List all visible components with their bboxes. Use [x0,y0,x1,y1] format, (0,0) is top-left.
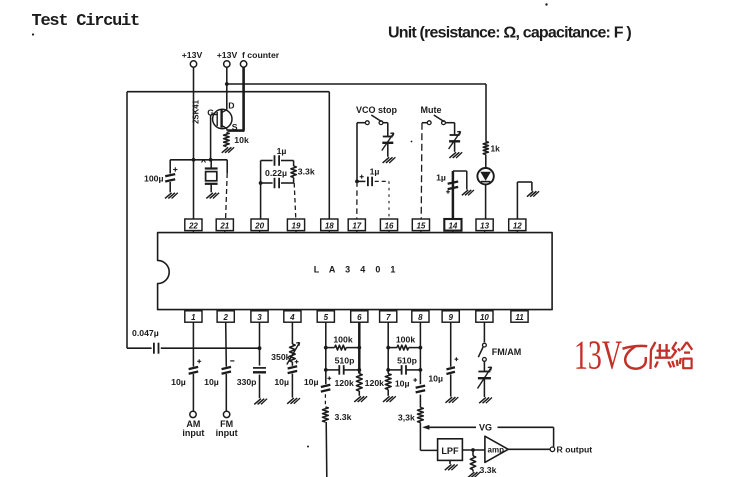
svg-text:10µ: 10µ [395,379,410,389]
ground pin14 bracket [462,190,474,195]
op-amp U1 [485,436,508,462]
svg-text:100µ: 100µ [144,174,164,184]
svg-text:2SK41: 2SK41 [192,99,201,124]
svg-text:f counter: f counter [242,50,280,60]
wire pin20 rail [259,161,273,220]
wire pin19 rail [281,161,294,184]
unit note text [388,24,631,41]
svg-text:S: S [232,122,238,132]
svg-text:1: 1 [191,313,196,322]
svg-text:+13V: +13V [182,50,203,60]
svg-text:15: 15 [416,221,425,230]
svg-text:Unit (resistance: Ω, capacitan: Unit (resistance: Ω, capacitance: F ) [388,24,631,41]
wire pin8 col [419,322,423,384]
wire pin5 dashed [324,394,326,407]
svg-text:5: 5 [324,313,329,322]
capacitor 510p (right) [388,356,420,375]
svg-text:120k: 120k [334,378,353,388]
svg-text:13: 13 [480,221,489,230]
pin 16 [380,219,397,233]
terminal OR output [550,445,592,455]
wire Mute left dashed to pin 15 [420,123,423,219]
svg-text:D: D [228,101,234,111]
resistor 1k [483,142,500,155]
pin 14 [444,219,461,233]
transistor 2SK41 [207,101,238,133]
red kanji kyou [651,342,672,369]
red kanji kyuu [672,342,693,368]
pin 7 [380,310,397,323]
svg-text:VG: VG [479,422,492,432]
ground pin12 [527,191,539,196]
terminal +13V (right) [217,50,238,67]
variable capacitor (Mute) [449,132,461,150]
pin 21 [216,219,233,233]
wire +13V right down to FET drain [226,67,228,109]
capacitor 0.22µ [265,168,287,188]
svg-text:input: input [216,428,238,438]
svg-text:510p: 510p [397,356,417,366]
red text 13V [574,331,622,377]
ground under 100µ [165,193,178,199]
capacitor 1µ (VCO) [357,167,379,187]
resistor 3.3k (osc) [291,166,315,178]
label VG [479,422,492,432]
svg-text:2: 2 [222,313,228,322]
wire VG loop [425,427,554,447]
svg-text:120k: 120k [365,378,384,388]
svg-text:L A 3 4 0 1: L A 3 4 0 1 [314,265,400,275]
svg-text:7: 7 [386,313,391,322]
switch Mute [422,115,455,125]
arrowhead VG [422,425,429,430]
wire node row [170,158,227,162]
resistor 100k (left) [326,335,360,350]
svg-text:0.047µ: 0.047µ [132,328,159,338]
svg-text:amp: amp [488,445,505,454]
wire pin8 mid [419,395,421,408]
svg-text:Test Circuit: Test Circuit [32,12,139,31]
wire pin10 col [483,322,485,342]
wire 1µ to pin16 dashed [375,181,389,219]
pin 9 [442,310,459,323]
wire pin2 col [225,322,228,411]
svg-text:10: 10 [480,313,489,322]
crystal resonator [205,160,218,193]
svg-text:10µ: 10µ [304,377,319,387]
wire pin7 col [386,322,390,373]
wire pin9 col [450,322,452,396]
wire pin5 col [324,322,328,384]
label VCO stop [356,105,398,115]
capacitor 100µ [144,160,178,193]
wire pin6 col bold [357,322,361,373]
resistor 100k (right) [388,335,420,350]
capacitor 1µ (pin 14) [436,171,458,219]
terminal FM input [216,411,238,438]
capacitor 330p [237,368,266,387]
title text [32,12,139,31]
wire dashed to pin 19 [294,183,296,219]
LPF box [438,439,463,461]
wire rail down to 1k [485,84,487,142]
capacitor 1µ (osc) [275,146,287,166]
svg-text:11: 11 [515,313,524,322]
pin 22 [185,219,202,233]
svg-text:12: 12 [513,221,522,230]
svg-text:9: 9 [448,313,453,322]
switch FM/AM [478,343,521,361]
terminal +13V (left) [182,50,203,67]
svg-text:19: 19 [292,221,301,230]
pin 13 [476,219,493,233]
pin 15 [412,219,429,233]
wire VCO sw to varcap [387,123,389,137]
artifact dot [32,3,548,447]
pin 11 [511,310,528,323]
svg-text:1µ: 1µ [436,173,446,183]
svg-text:0.22µ: 0.22µ [265,168,287,178]
svg-text:FM/AM: FM/AM [492,347,522,357]
svg-text:14: 14 [448,221,457,230]
wire pin8 to LPF [420,423,437,451]
capacitor 10µ (pin2) [204,361,234,387]
wire LPF to amp [462,448,485,452]
pin 10 [476,310,493,323]
svg-text:17: 17 [352,221,361,230]
svg-text:100k: 100k [333,335,352,345]
wire 120k7 to gnd [387,390,389,396]
ground pin10 [479,397,492,403]
ground pin7 [383,396,396,402]
ground under LPF [445,464,458,470]
svg-text:1k: 1k [491,144,501,154]
variable capacitor (FM/AM) [478,367,492,389]
capacitor 510p (left) [326,356,360,375]
pin 5 [317,310,334,323]
svg-text:13V: 13V [574,331,622,377]
wire sw to varcap [483,361,485,371]
LED indicator [477,155,493,220]
ground pin9 [445,397,458,403]
svg-text:18: 18 [325,221,334,230]
resistor 10k [224,133,249,147]
resistor 120k (pin7) [365,374,391,390]
svg-text:330p: 330p [237,377,257,387]
label Mute [421,105,442,115]
ground 3.3k amp [468,472,480,477]
wire top rail +13V to pin13 column [225,82,486,86]
terminal f counter [240,50,279,67]
wire LPF gnd [449,460,451,464]
capacitor 10µ (pin1) [171,359,201,387]
pin 17 [348,219,365,233]
svg-text:6: 6 [357,313,362,322]
svg-text:input: input [182,428,204,438]
ground under Mute varcap [449,152,462,158]
svg-text:350k: 350k [271,352,290,362]
node A mark [202,160,206,163]
capacitor 10µ (pin9) [428,357,458,383]
svg-text:Mute: Mute [421,105,442,115]
switch VCO stop [357,115,388,125]
svg-text:+13V: +13V [217,50,238,60]
ground pin4 [287,398,300,404]
svg-text:3.3k: 3.3k [335,412,352,422]
svg-text:10k: 10k [234,135,249,145]
svg-text:VCO stop: VCO stop [356,105,398,115]
capacitor 10µ (pin8) [395,378,425,392]
wire corner down to pin 21 [226,160,228,219]
capacitor 10µ (pin5) [304,376,331,391]
wire Mute sw to varcap [454,123,456,135]
pin 18 [321,219,338,233]
svg-text:10µ: 10µ [428,374,443,384]
wire varcap to gnd [483,378,485,397]
svg-text:21: 21 [219,221,229,230]
svg-text:3.3k: 3.3k [298,167,315,177]
pin 8 [412,310,429,323]
wire gate down [210,115,212,160]
svg-text:8: 8 [418,313,423,322]
wire 120k to gnd [358,391,360,396]
svg-text:3.3k: 3.3k [480,465,497,475]
svg-text:LPF: LPF [441,446,459,456]
wire pin4 col [291,322,293,397]
pin 6 [351,310,368,323]
svg-text:R output: R output [557,445,593,455]
terminal AM input [182,411,204,438]
svg-text:22: 22 [188,221,198,230]
pin 19 [287,219,304,233]
svg-text:1µ: 1µ [277,146,287,156]
wire 0.047 to pin3 junction [161,346,262,350]
bracket to ground pin14 [453,171,467,190]
wire +13V left down to pin 22 [193,67,195,219]
wire VCO left dashed to pin 17 [356,181,358,219]
resistor 3.3k (amp) [470,450,496,475]
label 2SK41 [192,99,201,124]
resistor 3.3k (pin8) [398,408,423,423]
ground under crystal [206,193,219,199]
red kanji de [623,346,648,369]
svg-text:20: 20 [254,221,264,230]
svg-text:10µ: 10µ [171,377,186,387]
wire pin12 to ground [517,182,532,219]
svg-text:16: 16 [385,221,394,230]
variable capacitor (VCO stop) [382,133,394,151]
pin 20 [251,219,268,233]
svg-text:4: 4 [289,313,295,322]
ground pin3 [254,399,267,405]
IC LA3401 body [158,233,552,310]
pin 1 [185,310,202,323]
svg-text:1µ: 1µ [370,167,380,177]
svg-text:100k: 100k [396,335,415,345]
wire VCO left down [355,123,359,184]
ground under VCO varcap [383,157,396,163]
capacitor 0.047µ [132,328,159,354]
pin 4 [284,310,301,323]
svg-text:10µ: 10µ [204,377,219,387]
wire Mute varcap to gnd [454,141,456,152]
pin 3 [251,310,268,323]
capacitor 10µ (pin4) [274,360,298,387]
resistor 120k (pin6) [334,374,362,391]
ground under 10k [222,147,234,153]
wire amp out [508,448,550,450]
wire pin5 to bottom edge [325,422,328,477]
wire feedback loop pin18-left side-0.047 [127,92,329,349]
svg-text:3: 3 [257,313,262,322]
svg-text:3,3k: 3,3k [398,413,415,423]
potentiometer 350k [271,343,299,365]
wire varcap to gnd [387,143,389,157]
wire pin1 col [192,322,194,411]
pin 12 [509,219,526,233]
svg-text:10µ: 10µ [274,377,289,387]
resistor 3.3k (pin5) [323,407,352,422]
pin 2 [217,310,234,323]
wire f counter (bold) [227,67,244,130]
ground pin6 [354,396,367,402]
wire pin3 col [259,322,261,398]
svg-text:510p: 510p [335,356,355,366]
